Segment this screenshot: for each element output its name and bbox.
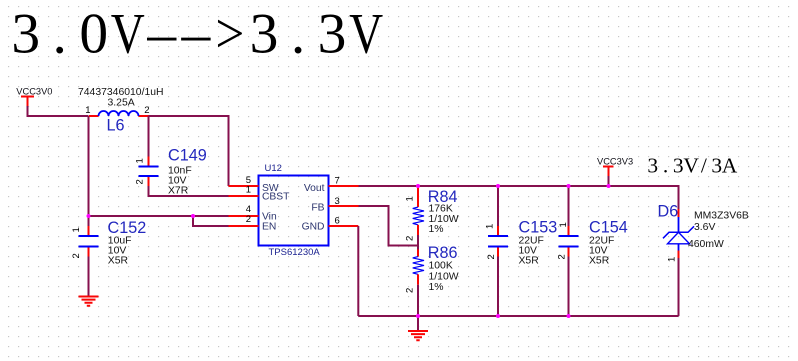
ground symbol (under C152) [79, 297, 99, 306]
wire vertical left rail (L6.1 to C152 / Vin net) [88, 116, 90, 226]
svg-text:U12: U12 [265, 163, 282, 174]
svg-text:7: 7 [335, 176, 340, 187]
wire C153 bottom lead [497, 257, 499, 317]
inductor L6 [78, 87, 164, 135]
capacitor C152 [71, 219, 146, 267]
capacitor C149 [135, 147, 207, 197]
wire C154 bottom lead [568, 257, 570, 317]
svg-text:X5R: X5R [519, 256, 540, 267]
junction (VCC3V3) [607, 184, 611, 188]
svg-text:C154: C154 [589, 219, 628, 237]
resistor R84 [405, 186, 459, 241]
svg-text:VCC3V3: VCC3V3 [597, 157, 633, 167]
svg-text:/: / [701, 154, 707, 178]
wire Vin net (junction to Vin pin) [89, 215, 229, 217]
wire ground rail bottom [358, 315, 678, 317]
IC U12 TPS61230A [259, 163, 329, 258]
wire GND pin down [357, 226, 359, 316]
svg-text:.: . [291, 2, 305, 65]
svg-text:A: A [722, 154, 738, 178]
svg-text:3: 3 [711, 154, 722, 178]
capacitor C154 [557, 219, 628, 267]
svg-text:1: 1 [667, 257, 678, 262]
svg-text:3: 3 [647, 154, 658, 178]
svg-text:X7R: X7R [168, 186, 189, 197]
resistor R86 [405, 244, 459, 293]
junction (C153 bottom) [496, 314, 500, 318]
svg-text:EN: EN [262, 222, 276, 233]
svg-text:–: – [146, 2, 177, 65]
svg-text:MM3Z3V6B: MM3Z3V6B [694, 211, 749, 222]
wire R86 to ground rail [417, 285, 419, 316]
svg-text:X5R: X5R [589, 256, 610, 267]
svg-text:Vout: Vout [304, 183, 325, 194]
title text "3.0V to 3.3V" [11, 2, 383, 65]
capacitor C153 [485, 219, 558, 267]
svg-text:V: V [349, 2, 383, 65]
wire L6 pin2 down to C149 [148, 116, 150, 157]
svg-text:1: 1 [71, 227, 82, 232]
svg-text:1: 1 [85, 105, 90, 116]
svg-text:C153: C153 [519, 219, 558, 237]
svg-text:2: 2 [557, 254, 568, 259]
junction (R86 bottom / ground) [416, 314, 420, 318]
wire FB to divider [359, 206, 419, 246]
wire C153 top lead [497, 186, 499, 226]
ground symbol (bottom rail) [408, 331, 428, 340]
svg-text:1: 1 [246, 185, 251, 196]
svg-text:2: 2 [486, 254, 497, 259]
junction (EN branch) [191, 214, 195, 218]
wire Vout rail [359, 186, 679, 209]
svg-text:3: 3 [673, 154, 684, 178]
wire C154 top lead [568, 186, 570, 226]
pin 1 CBST [229, 195, 259, 197]
wire R84 to R86 junction [417, 235, 419, 250]
svg-text:V: V [683, 154, 699, 178]
svg-text:2: 2 [144, 105, 149, 116]
junction (C152 / Vin net) [87, 214, 91, 218]
svg-text:1%: 1% [429, 224, 444, 235]
svg-text:2: 2 [405, 288, 416, 293]
junction (C153 top) [496, 184, 500, 188]
diode D6 zener [658, 203, 749, 263]
junction (C154 top) [567, 184, 571, 188]
svg-text:TPS61230A: TPS61230A [269, 247, 321, 258]
svg-text:C149: C149 [168, 147, 207, 165]
power port VCC3V0 [16, 87, 52, 116]
wire VCC3V0 to L6 pin1 [28, 115, 89, 116]
svg-text:.: . [663, 154, 668, 178]
svg-text:460mW: 460mW [688, 239, 724, 250]
svg-text:3: 3 [335, 196, 340, 207]
svg-text:–: – [181, 2, 212, 65]
svg-text:R86: R86 [428, 244, 458, 262]
svg-text:V: V [111, 2, 145, 65]
svg-text:100K: 100K [429, 261, 453, 272]
svg-text:GND: GND [302, 222, 325, 233]
svg-text:1: 1 [405, 196, 416, 201]
junction (R84 top) [416, 184, 420, 188]
pin 7 Vout [329, 185, 359, 187]
svg-text:0: 0 [79, 2, 108, 65]
svg-text:X5R: X5R [108, 256, 129, 267]
svg-text:2: 2 [135, 179, 146, 184]
svg-text:VCC3V0: VCC3V0 [16, 87, 52, 97]
svg-text:1: 1 [558, 222, 569, 227]
svg-text:D6: D6 [658, 203, 679, 221]
svg-text:3: 3 [11, 2, 40, 65]
wire ground stub under rail [417, 316, 419, 331]
svg-text:6: 6 [335, 216, 340, 227]
svg-text:.: . [53, 2, 67, 65]
svg-text:1%: 1% [429, 282, 444, 293]
wire L6 pin2 to SW [149, 116, 229, 186]
pin 4 Vin [229, 215, 259, 217]
svg-text:1: 1 [485, 224, 496, 229]
junction (C154 bottom) [567, 314, 571, 318]
pin 2 EN [229, 225, 259, 227]
svg-text:3: 3 [250, 2, 279, 65]
svg-text:>: > [215, 2, 244, 65]
svg-text:CBST: CBST [262, 192, 290, 203]
svg-text:3.6V: 3.6V [694, 222, 715, 233]
svg-text:2: 2 [405, 236, 416, 241]
pin 3 FB [329, 205, 359, 207]
svg-text:L6: L6 [107, 117, 125, 135]
svg-text:3.25A: 3.25A [108, 98, 135, 109]
svg-text:1: 1 [135, 158, 146, 163]
pin 5 SW [229, 185, 259, 187]
wire C149 to CBST [149, 186, 229, 196]
svg-text:74437346010/1uH: 74437346010/1uH [78, 87, 164, 98]
power port VCC3V3 [597, 157, 633, 187]
wire EN branch [193, 216, 229, 226]
svg-text:C152: C152 [108, 219, 147, 237]
svg-text:1/10W: 1/10W [429, 271, 459, 282]
svg-text:FB: FB [311, 203, 324, 214]
svg-text:2: 2 [246, 214, 251, 225]
node 3.3V/3A label [647, 154, 737, 178]
wire D6 to ground rail [678, 258, 680, 316]
wire C152 to ground [88, 257, 90, 297]
pin 6 GND [329, 225, 359, 227]
svg-text:2: 2 [71, 253, 82, 258]
svg-text:3: 3 [318, 2, 347, 65]
